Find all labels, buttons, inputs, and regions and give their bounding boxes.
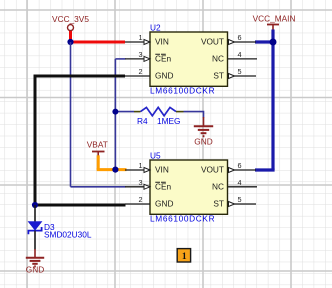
wire blue bus to U5 VOUT xyxy=(255,168,275,171)
svg-text:U5: U5 xyxy=(150,150,161,160)
node junction J3 xyxy=(112,167,118,173)
node junction J1 xyxy=(67,39,73,45)
svg-text:NC: NC xyxy=(212,182,224,192)
op-amp U2 (load switch LM66100DCKR) xyxy=(125,22,257,95)
svg-text:GND: GND xyxy=(26,265,44,275)
pin 5 ST of U2 xyxy=(213,67,256,81)
svg-text:1: 1 xyxy=(138,161,142,170)
pin 3 CEn of U2 xyxy=(125,50,172,64)
wire black to U5 GND xyxy=(35,204,126,207)
wire D3 cathode to GND xyxy=(34,231,36,250)
svg-text:NC: NC xyxy=(212,54,224,64)
svg-text:1MEG: 1MEG xyxy=(157,116,181,126)
svg-text:4: 4 xyxy=(237,50,241,59)
svg-text:VBAT: VBAT xyxy=(87,140,108,150)
wire orange VBAT to U5 VIN xyxy=(97,168,127,171)
wire blue bus vertical VCC_MAIN xyxy=(271,30,274,171)
svg-text:LM66100DCKR: LM66100DCKR xyxy=(150,214,215,224)
power port VCC_MAIN xyxy=(253,14,296,31)
wire navy R4 to GND xyxy=(184,112,204,118)
wire navy to U2 CEn xyxy=(115,58,125,60)
svg-text:U2: U2 xyxy=(150,22,161,32)
svg-text:1: 1 xyxy=(182,252,187,262)
wire navy to R4 xyxy=(115,111,134,113)
svg-text:ST: ST xyxy=(213,199,224,209)
svg-text:5: 5 xyxy=(237,67,241,76)
diode D3 xyxy=(28,222,92,240)
pin 3 CEn of U5 xyxy=(125,178,172,192)
svg-text:LM66100DCKR: LM66100DCKR xyxy=(150,86,215,96)
pin 6 VOUT of U2 xyxy=(201,33,256,47)
ground GND (below D3) xyxy=(26,249,44,275)
pin 1 VIN of U5 xyxy=(125,161,169,175)
resistor R4 xyxy=(134,107,184,125)
power port VCC_3V5 xyxy=(52,14,89,31)
wire navy J1 down to U5 CEn row xyxy=(70,42,72,187)
svg-text:VCC_3V5: VCC_3V5 xyxy=(52,14,89,24)
pin 1 VIN of U2 xyxy=(125,33,169,47)
svg-text:2: 2 xyxy=(138,67,142,76)
pin 2 GND of U5 xyxy=(125,195,173,209)
svg-text:VCC_MAIN: VCC_MAIN xyxy=(253,14,296,24)
svg-text:GND: GND xyxy=(155,199,173,209)
svg-text:SMD02U30L: SMD02U30L xyxy=(44,229,92,239)
pin 5 ST of U5 xyxy=(213,195,256,209)
wire orange VBAT vertical xyxy=(97,155,100,169)
ground GND (near R4) xyxy=(194,117,213,147)
svg-text:1: 1 xyxy=(138,33,142,42)
svg-text:VIN: VIN xyxy=(155,165,169,175)
svg-text:6: 6 xyxy=(237,33,241,42)
svg-text:CEn: CEn xyxy=(155,54,172,64)
svg-text:ST: ST xyxy=(213,71,224,81)
svg-text:GND: GND xyxy=(194,137,212,147)
wire navy to U5 CEn xyxy=(71,186,126,188)
wire black junction to D3 anode xyxy=(34,205,36,222)
svg-text:3: 3 xyxy=(138,178,142,187)
pin 6 VOUT of U5 xyxy=(201,161,256,175)
svg-text:2: 2 xyxy=(138,195,142,204)
svg-text:CEn: CEn xyxy=(155,182,172,192)
wire blue bus to U2 VOUT xyxy=(255,40,273,43)
svg-text:VOUT: VOUT xyxy=(201,37,224,47)
svg-text:VIN: VIN xyxy=(155,37,169,47)
power port VBAT xyxy=(87,140,108,157)
wire red VCC_3V5 vertical xyxy=(69,31,72,42)
pin 4 NC of U5 xyxy=(212,178,257,192)
svg-text:6: 6 xyxy=(237,161,241,170)
pin 4 NC of U2 xyxy=(212,50,257,64)
wire black U2 GND left xyxy=(35,76,125,205)
svg-text:VOUT: VOUT xyxy=(201,165,224,175)
wire navy vertical x115 xyxy=(114,59,116,170)
wire red VCC_3V5 to U2 VIN xyxy=(69,41,125,44)
svg-text:4: 4 xyxy=(237,178,241,187)
note marker 1 xyxy=(177,249,190,262)
svg-text:GND: GND xyxy=(155,71,173,81)
svg-text:3: 3 xyxy=(138,50,142,59)
svg-text:5: 5 xyxy=(237,195,241,204)
svg-text:R4: R4 xyxy=(137,116,148,126)
node junction J5 xyxy=(32,202,38,208)
node junction J4 xyxy=(270,39,277,46)
node junction J2 xyxy=(112,109,118,115)
pin 2 GND of U2 xyxy=(125,67,173,81)
op-amp U5 (load switch LM66100DCKR) xyxy=(125,150,257,223)
